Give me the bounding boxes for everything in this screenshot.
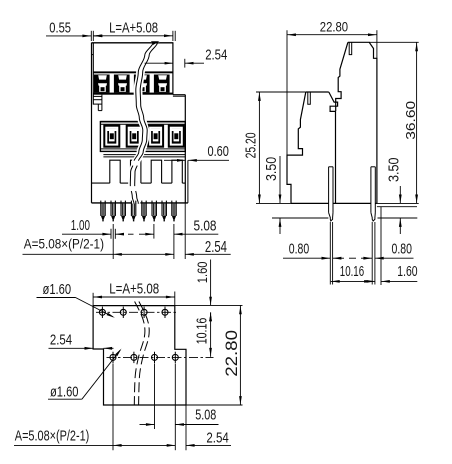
bottom view: pin holes bbox=[99, 309, 105, 315]
svg-text:10.16: 10.16 bbox=[194, 318, 210, 345]
svg-text:10.16: 10.16 bbox=[340, 264, 364, 280]
svg-text:5.08: 5.08 bbox=[195, 407, 216, 424]
svg-text:L=A+5.08: L=A+5.08 bbox=[109, 280, 159, 297]
front view: top edge redraw bbox=[92, 42, 173, 44]
side view: lower-level profile bbox=[287, 92, 306, 203]
bottom view: break lines bbox=[134, 302, 145, 406]
side view: base line bbox=[291, 202, 329, 204]
svg-text:25.20: 25.20 bbox=[242, 132, 259, 158]
side view: upper-level screw slot bbox=[349, 42, 352, 54]
front view: solder pins bbox=[100, 201, 102, 216]
front view: break line band bbox=[128, 42, 160, 204]
bottom view: footprint outline bbox=[93, 306, 186, 405]
front view: base line bbox=[92, 202, 188, 204]
svg-text:3.50: 3.50 bbox=[263, 157, 280, 181]
extension lines below bottom view bbox=[112, 364, 114, 451]
svg-text:5.08: 5.08 bbox=[194, 218, 217, 235]
front view: bottom notched section bbox=[103, 154, 185, 156]
svg-text:3.50: 3.50 bbox=[386, 158, 403, 183]
front view: row-1 screw terminals bbox=[93, 71, 172, 73]
svg-text:0.60: 0.60 bbox=[208, 143, 229, 160]
extension lines below front view bbox=[112, 224, 114, 259]
svg-text:2.54: 2.54 bbox=[205, 239, 227, 256]
front view: lower housing top edge (right part) bbox=[173, 94, 185, 96]
front view: 0.60 step edge bbox=[187, 160, 189, 203]
side view: lower-level screw slot bbox=[308, 92, 311, 104]
front view: break line arrow mark bbox=[151, 41, 159, 45]
dimension 2.54 (front view pins right) bbox=[185, 253, 194, 256]
svg-text:2.54: 2.54 bbox=[205, 46, 227, 63]
svg-text:0.80: 0.80 bbox=[392, 240, 412, 257]
extension lines below side view pins bbox=[329, 222, 331, 285]
svg-text:1.60: 1.60 bbox=[397, 264, 417, 280]
svg-text:22.80: 22.80 bbox=[223, 330, 241, 377]
svg-text:2.54: 2.54 bbox=[206, 430, 228, 447]
svg-text:1.60: 1.60 bbox=[194, 261, 210, 283]
svg-text:2.54: 2.54 bbox=[50, 331, 72, 348]
svg-text:22.80: 22.80 bbox=[320, 18, 348, 34]
svg-text:ø1.60: ø1.60 bbox=[50, 384, 79, 401]
svg-text:0.55: 0.55 bbox=[49, 19, 71, 36]
svg-text:0.80: 0.80 bbox=[289, 240, 309, 257]
svg-text:ø1.60: ø1.60 bbox=[43, 281, 72, 298]
svg-text:A=5.08×(P/2-1): A=5.08×(P/2-1) bbox=[15, 428, 90, 445]
side view: solder pins bbox=[329, 166, 333, 168]
side view: upper-level profile bbox=[348, 42, 377, 203]
svg-text:A=5.08×(P/2-1): A=5.08×(P/2-1) bbox=[24, 236, 104, 252]
front view: upper housing outline bbox=[92, 43, 173, 95]
svg-text:L=A+5.08: L=A+5.08 bbox=[109, 20, 158, 37]
svg-text:1.00: 1.00 bbox=[71, 217, 90, 234]
svg-text:36.60: 36.60 bbox=[403, 101, 418, 140]
bottom view: centerlines bbox=[96, 311, 179, 313]
front view: row-2 screw terminals bbox=[100, 122, 185, 152]
front view: left side step details bbox=[93, 95, 102, 97]
